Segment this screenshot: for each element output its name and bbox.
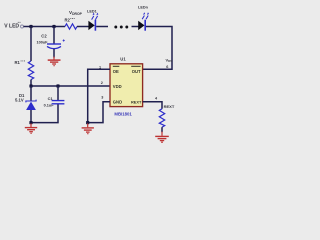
svg-text:V LED: V LED [4,23,19,29]
wire R1 branch vertical [30,27,32,62]
zener diode D1 [26,100,36,103]
wire GND pin 3 [88,102,110,123]
svg-text:OE: OE [113,69,119,74]
svg-text:5.1V: 5.1V [15,97,24,102]
resistor R2 [65,24,77,29]
capacitor C1 [52,101,65,104]
wire VDD to C1 [57,86,59,100]
ground under REXT [155,132,169,143]
superscript marks after V LED [18,21,21,23]
svg-text:VDD: VDD [113,84,122,89]
svg-text:100uF: 100uF [37,40,49,44]
IC U1 box [110,64,143,107]
wire C1 to ground wire [31,104,58,122]
wire top-left from terminal to R2 [24,26,66,28]
junction R1/D1 [29,84,32,87]
LEDn arrows [142,12,149,19]
capacitor C2 polarized [47,43,61,45]
junction at R1 branch [29,25,32,28]
svg-text:6: 6 [166,65,168,69]
LED1 diode [88,21,94,30]
wire VDD to D1 [30,86,32,101]
junction D1 ground [29,121,32,124]
wire D1 to ground net [30,110,32,123]
wire LED1 cathode [96,26,108,28]
wire C2 branch vertical [53,27,55,45]
svg-text:C2: C2 [41,33,47,38]
wire R2 to LED1 [77,26,89,28]
wire VDD net [31,85,110,87]
continuation dots [114,26,117,29]
terminal circle V LED [21,25,24,28]
junction C1 [56,84,59,87]
LED1 arrows [92,13,99,20]
superscript marks after R2 [70,18,74,20]
svg-text:GND: GND [113,99,122,104]
resistor REXT [159,109,164,127]
superscript marks after R1 [21,60,25,62]
svg-text:MBI1801: MBI1801 [114,111,132,116]
svg-text:OUT: OUT [132,69,141,74]
junction at C2 branch [52,25,55,28]
ground under OE/GND net [82,123,94,133]
svg-text:LED1: LED1 [87,9,97,13]
svg-text:REXT: REXT [131,99,142,104]
wire REXT to ground [161,127,163,132]
LEDn diode [138,21,144,30]
wire R1 to VDD net [30,80,32,86]
ground under D1 [25,123,37,133]
wire REXT pin 4 [143,102,162,109]
junction ground net [86,121,89,124]
wire C2 to ground [53,49,55,58]
svg-text:3: 3 [101,96,103,100]
ground under C2 [48,57,61,66]
svg-text:R2: R2 [65,18,71,23]
svg-text:R1: R1 [15,60,21,65]
svg-text:LEDn: LEDn [138,6,149,10]
wire OE pin 1 to ground net [88,69,110,122]
resistor R1 [28,61,33,80]
svg-text:U1: U1 [120,56,126,61]
svg-text:VDS: VDS [166,57,173,63]
svg-text:2: 2 [101,81,103,85]
wire dots to LEDn [132,26,139,28]
wire LEDn to OUT pin 6 [143,27,172,70]
svg-text:REXT: REXT [164,104,175,109]
